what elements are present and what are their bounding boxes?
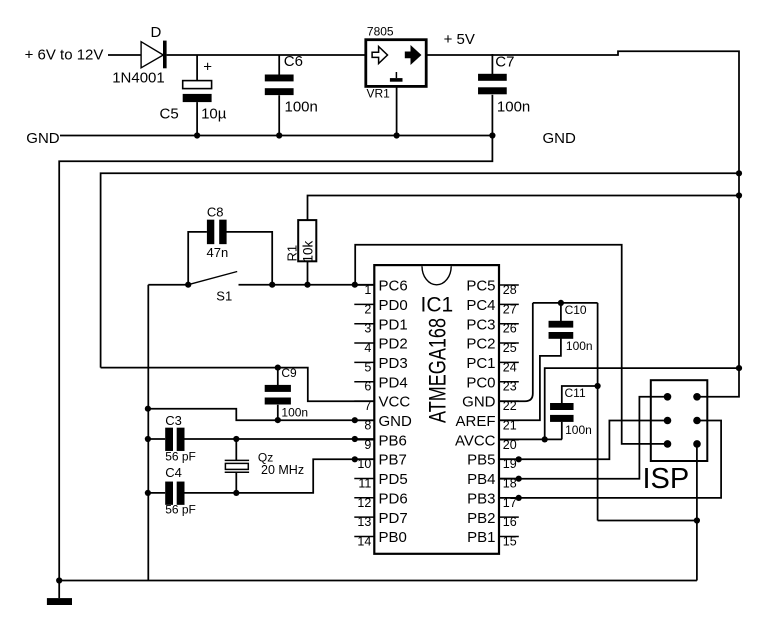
svg-text:PC3: PC3 (466, 316, 495, 333)
svg-text:D: D (151, 24, 162, 41)
svg-text:PD5: PD5 (379, 471, 408, 488)
svg-text:1N4001: 1N4001 (112, 70, 165, 87)
svg-text:16: 16 (503, 515, 517, 529)
svg-text:PB1: PB1 (467, 529, 495, 546)
svg-text:5: 5 (364, 360, 371, 374)
svg-text:C5: C5 (160, 106, 179, 123)
svg-text:26: 26 (503, 322, 517, 336)
svg-text:ISP: ISP (643, 463, 690, 495)
svg-text:+ 5V: + 5V (444, 31, 475, 48)
svg-text:GND: GND (379, 413, 413, 430)
svg-text:12: 12 (357, 496, 371, 510)
svg-text:11: 11 (358, 476, 371, 490)
svg-text:9: 9 (364, 438, 371, 452)
svg-text:PD7: PD7 (379, 510, 408, 527)
svg-text:24: 24 (503, 360, 517, 374)
svg-text:27: 27 (503, 302, 517, 316)
svg-text:GND: GND (543, 130, 577, 147)
svg-text:47n: 47n (207, 245, 229, 260)
svg-text:C7: C7 (495, 54, 514, 71)
svg-text:100n: 100n (497, 99, 530, 116)
svg-text:100n: 100n (566, 339, 593, 353)
svg-text:6: 6 (364, 380, 371, 394)
svg-text:19: 19 (503, 457, 517, 471)
svg-text:7805: 7805 (367, 25, 394, 39)
svg-text:PC0: PC0 (466, 374, 495, 391)
svg-text:22: 22 (503, 399, 517, 413)
svg-text:VR1: VR1 (367, 86, 391, 100)
svg-text:PB5: PB5 (467, 452, 495, 469)
svg-text:PB0: PB0 (379, 529, 407, 546)
svg-text:C11: C11 (565, 386, 586, 400)
svg-text:PD0: PD0 (379, 297, 408, 314)
svg-text:1: 1 (364, 283, 371, 297)
svg-text:PB6: PB6 (379, 432, 407, 449)
svg-text:10: 10 (357, 457, 371, 471)
svg-text:AVCC: AVCC (455, 432, 496, 449)
svg-text:PC5: PC5 (466, 278, 495, 295)
svg-text:AREF: AREF (455, 413, 495, 430)
svg-text:100n: 100n (285, 99, 318, 116)
svg-text:C9: C9 (281, 366, 297, 380)
svg-text:GND: GND (462, 394, 496, 411)
svg-text:PC1: PC1 (466, 355, 495, 372)
svg-text:PB3: PB3 (467, 490, 495, 507)
svg-text:S1: S1 (216, 289, 232, 304)
svg-text:56 pF: 56 pF (165, 503, 196, 517)
svg-text:10µ: 10µ (201, 106, 227, 123)
svg-text:100n: 100n (281, 405, 308, 419)
svg-text:PC6: PC6 (379, 278, 408, 295)
svg-text:R1: R1 (285, 245, 300, 262)
svg-text:4: 4 (364, 341, 371, 355)
svg-text:+ 6V to 12V: + 6V to 12V (25, 47, 104, 64)
svg-text:PD3: PD3 (379, 355, 408, 372)
svg-text:PD4: PD4 (379, 374, 408, 391)
svg-text:C10: C10 (565, 303, 587, 317)
svg-text:PB7: PB7 (379, 452, 407, 469)
svg-text:VCC: VCC (379, 394, 411, 411)
svg-text:15: 15 (503, 534, 517, 548)
svg-text:PB4: PB4 (467, 471, 495, 488)
svg-text:14: 14 (357, 534, 371, 548)
svg-text:23: 23 (503, 380, 517, 394)
svg-text:PD6: PD6 (379, 490, 408, 507)
svg-text:20 MHz: 20 MHz (261, 463, 304, 477)
svg-text:PC2: PC2 (466, 336, 495, 353)
svg-text:56 pF: 56 pF (165, 450, 196, 464)
svg-text:2: 2 (364, 302, 371, 316)
svg-text:20: 20 (503, 438, 517, 452)
svg-text:C3: C3 (165, 413, 182, 428)
svg-text:8: 8 (364, 418, 371, 432)
svg-text:17: 17 (503, 496, 517, 510)
svg-text:ATMEGA168: ATMEGA168 (425, 318, 452, 423)
svg-text:3: 3 (364, 322, 371, 336)
svg-text:21: 21 (503, 418, 517, 432)
svg-text:IC1: IC1 (421, 294, 454, 317)
svg-text:C4: C4 (165, 465, 182, 480)
svg-text:10k: 10k (301, 240, 316, 262)
svg-text:PC4: PC4 (466, 297, 495, 314)
svg-text:GND: GND (26, 130, 60, 147)
svg-text:100n: 100n (565, 423, 592, 437)
svg-text:13: 13 (357, 515, 371, 529)
svg-text:C8: C8 (207, 205, 224, 220)
svg-text:25: 25 (503, 341, 517, 355)
svg-text:C6: C6 (284, 53, 303, 70)
svg-text:PD1: PD1 (379, 316, 408, 333)
svg-text:18: 18 (503, 476, 517, 490)
svg-text:7: 7 (364, 399, 371, 413)
svg-text:+: + (203, 59, 212, 76)
svg-text:PB2: PB2 (467, 510, 495, 527)
svg-text:28: 28 (503, 283, 517, 297)
svg-text:PD2: PD2 (379, 336, 408, 353)
